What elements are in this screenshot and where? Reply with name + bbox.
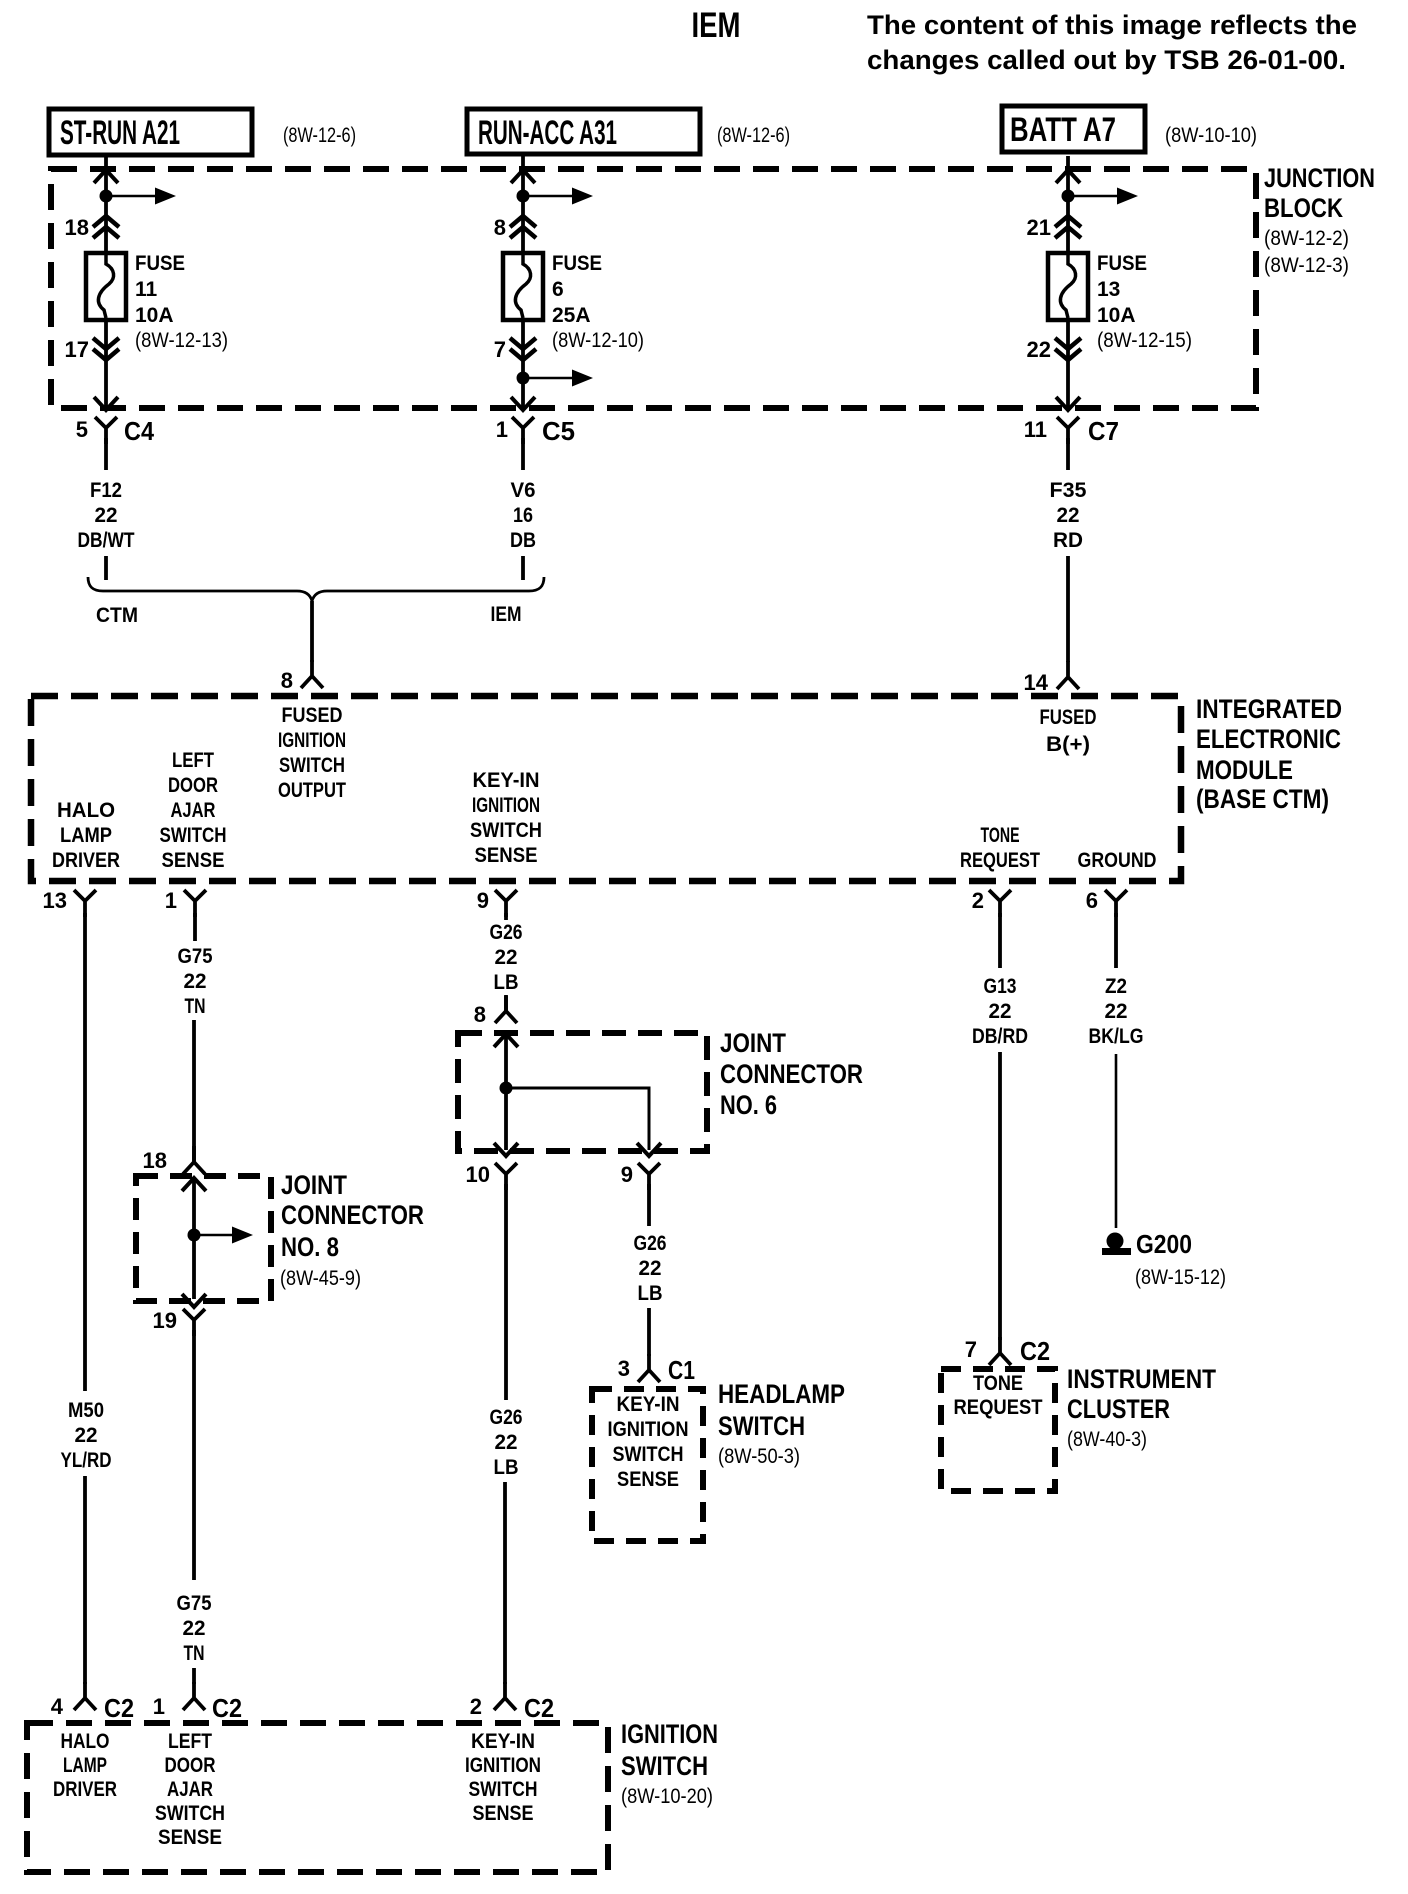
svg-text:8: 8 — [494, 215, 506, 240]
svg-text:13: 13 — [43, 888, 67, 913]
svg-text:22: 22 — [75, 1424, 98, 1447]
svg-text:22: 22 — [183, 1617, 206, 1640]
svg-text:G26: G26 — [490, 921, 523, 944]
svg-text:OUTPUT: OUTPUT — [278, 779, 346, 802]
svg-text:BK/LG: BK/LG — [1089, 1025, 1144, 1048]
svg-text:6: 6 — [552, 278, 564, 301]
svg-text:8: 8 — [281, 668, 293, 693]
svg-text:19: 19 — [153, 1308, 177, 1333]
svg-text:5: 5 — [76, 417, 88, 442]
svg-text:LAMP: LAMP — [63, 1754, 107, 1777]
svg-text:22: 22 — [95, 504, 118, 527]
svg-text:CLUSTER: CLUSTER — [1067, 1394, 1170, 1424]
svg-text:CONNECTOR: CONNECTOR — [281, 1200, 424, 1230]
svg-text:BATT A7: BATT A7 — [1010, 111, 1116, 149]
svg-text:22: 22 — [1027, 337, 1051, 362]
svg-text:4: 4 — [51, 1694, 64, 1719]
svg-text:(8W-10-20): (8W-10-20) — [621, 1785, 713, 1808]
svg-text:IGNITION: IGNITION — [472, 794, 540, 817]
svg-text:DOOR: DOOR — [168, 774, 218, 797]
svg-text:IEM: IEM — [692, 6, 741, 45]
svg-text:IGNITION: IGNITION — [465, 1754, 541, 1777]
svg-text:G26: G26 — [634, 1232, 667, 1255]
svg-text:REQUEST: REQUEST — [960, 849, 1040, 872]
svg-text:G26: G26 — [490, 1406, 523, 1429]
svg-text:GROUND: GROUND — [1078, 849, 1157, 872]
svg-text:SWITCH: SWITCH — [470, 819, 542, 842]
svg-text:DRIVER: DRIVER — [53, 1778, 117, 1801]
svg-text:1: 1 — [496, 417, 508, 442]
svg-text:B(+): B(+) — [1046, 733, 1090, 756]
svg-text:1: 1 — [153, 1694, 165, 1719]
svg-text:SENSE: SENSE — [473, 1802, 534, 1825]
svg-text:14: 14 — [1024, 670, 1049, 695]
svg-text:18: 18 — [143, 1148, 167, 1173]
svg-text:TONE: TONE — [973, 1372, 1023, 1395]
svg-text:(8W-50-3): (8W-50-3) — [718, 1445, 800, 1468]
svg-text:MODULE: MODULE — [1196, 755, 1293, 785]
svg-text:C1: C1 — [668, 1355, 695, 1385]
svg-text:13: 13 — [1097, 278, 1120, 301]
svg-text:2: 2 — [470, 1694, 482, 1719]
svg-text:F35: F35 — [1050, 479, 1087, 502]
svg-text:(8W-12-6): (8W-12-6) — [283, 124, 356, 147]
svg-text:YL/RD: YL/RD — [61, 1449, 112, 1472]
svg-text:(8W-40-3): (8W-40-3) — [1067, 1428, 1147, 1451]
svg-text:10: 10 — [466, 1162, 490, 1187]
svg-text:7: 7 — [965, 1337, 977, 1362]
svg-text:SENSE: SENSE — [475, 844, 538, 867]
svg-text:AJAR: AJAR — [167, 1778, 213, 1801]
svg-text:TONE: TONE — [981, 824, 1020, 847]
svg-text:(8W-15-12): (8W-15-12) — [1135, 1266, 1226, 1289]
svg-text:SWITCH: SWITCH — [613, 1443, 684, 1466]
svg-text:KEY-IN: KEY-IN — [471, 1730, 535, 1753]
svg-text:(8W-12-3): (8W-12-3) — [1264, 254, 1349, 277]
svg-text:(8W-45-9): (8W-45-9) — [280, 1267, 361, 1290]
svg-text:25A: 25A — [552, 304, 591, 327]
svg-text:JOINT: JOINT — [720, 1028, 786, 1058]
svg-text:22: 22 — [1105, 1000, 1128, 1023]
svg-text:BLOCK: BLOCK — [1264, 193, 1343, 223]
svg-text:F12: F12 — [90, 479, 122, 502]
svg-text:FUSED: FUSED — [282, 704, 343, 727]
svg-text:11: 11 — [1024, 417, 1047, 442]
svg-text:DB/RD: DB/RD — [972, 1025, 1028, 1048]
svg-text:DRIVER: DRIVER — [52, 849, 120, 872]
svg-text:KEY-IN: KEY-IN — [473, 769, 540, 792]
svg-text:SWITCH: SWITCH — [160, 824, 227, 847]
svg-text:AJAR: AJAR — [171, 799, 216, 822]
svg-text:10A: 10A — [135, 304, 174, 327]
svg-text:CONNECTOR: CONNECTOR — [720, 1059, 863, 1089]
svg-text:G75: G75 — [177, 1592, 212, 1615]
svg-text:KEY-IN: KEY-IN — [617, 1393, 680, 1416]
svg-text:SWITCH: SWITCH — [155, 1802, 225, 1825]
svg-text:FUSED: FUSED — [1040, 706, 1097, 729]
svg-text:(8W-12-10): (8W-12-10) — [552, 329, 644, 352]
svg-text:REQUEST: REQUEST — [954, 1396, 1043, 1419]
svg-text:IGNITION: IGNITION — [621, 1719, 718, 1749]
svg-text:22: 22 — [184, 970, 207, 993]
svg-text:FUSE: FUSE — [135, 252, 185, 275]
svg-text:JUNCTION: JUNCTION — [1264, 163, 1375, 193]
svg-text:22: 22 — [495, 1431, 518, 1454]
svg-text:2: 2 — [972, 888, 984, 913]
svg-text:JOINT: JOINT — [281, 1170, 347, 1200]
svg-text:ELECTRONIC: ELECTRONIC — [1196, 724, 1341, 754]
svg-text:(8W-12-13): (8W-12-13) — [135, 329, 228, 352]
svg-text:SWITCH: SWITCH — [621, 1751, 708, 1781]
svg-text:FUSE: FUSE — [552, 252, 602, 275]
svg-text:Z2: Z2 — [1105, 975, 1127, 998]
svg-text:SENSE: SENSE — [158, 1826, 222, 1849]
svg-text:LB: LB — [494, 971, 519, 994]
svg-text:HALO: HALO — [57, 799, 115, 822]
svg-text:C2: C2 — [212, 1693, 242, 1723]
svg-text:22: 22 — [639, 1257, 662, 1280]
svg-text:16: 16 — [513, 504, 533, 527]
svg-text:HEADLAMP: HEADLAMP — [718, 1379, 845, 1409]
svg-text:17: 17 — [65, 337, 89, 362]
svg-text:IGNITION: IGNITION — [608, 1418, 689, 1441]
svg-text:8: 8 — [474, 1002, 486, 1027]
svg-text:9: 9 — [621, 1162, 633, 1187]
svg-text:TN: TN — [184, 1642, 205, 1665]
svg-text:LB: LB — [638, 1282, 663, 1305]
svg-text:18: 18 — [65, 215, 89, 240]
svg-text:G75: G75 — [178, 945, 213, 968]
svg-text:LEFT: LEFT — [172, 749, 214, 772]
svg-text:DOOR: DOOR — [165, 1754, 216, 1777]
svg-text:FUSE: FUSE — [1097, 252, 1147, 275]
svg-text:11: 11 — [135, 278, 158, 301]
svg-text:10A: 10A — [1097, 304, 1136, 327]
svg-text:6: 6 — [1086, 888, 1098, 913]
svg-text:SWITCH: SWITCH — [469, 1778, 538, 1801]
svg-text:3: 3 — [618, 1356, 630, 1381]
svg-text:NO. 8: NO. 8 — [281, 1232, 339, 1262]
svg-text:22: 22 — [1057, 504, 1080, 527]
svg-text:ST-RUN A21: ST-RUN A21 — [60, 114, 180, 152]
svg-text:DB/WT: DB/WT — [78, 529, 135, 552]
svg-text:NO. 6: NO. 6 — [720, 1090, 777, 1120]
svg-text:22: 22 — [495, 946, 518, 969]
svg-text:9: 9 — [477, 888, 489, 913]
svg-text:G13: G13 — [984, 975, 1017, 998]
svg-text:C2: C2 — [524, 1693, 554, 1723]
svg-text:The content of this image refl: The content of this image reflects the — [867, 10, 1357, 40]
svg-text:CTM: CTM — [96, 604, 138, 627]
svg-text:LAMP: LAMP — [60, 824, 112, 847]
svg-text:7: 7 — [494, 337, 506, 362]
svg-text:LB: LB — [494, 1456, 519, 1479]
svg-text:SWITCH: SWITCH — [718, 1411, 805, 1441]
svg-text:SENSE: SENSE — [162, 849, 225, 872]
svg-text:V6: V6 — [511, 479, 536, 502]
svg-text:SENSE: SENSE — [617, 1468, 679, 1491]
svg-text:22: 22 — [989, 1000, 1012, 1023]
svg-text:LEFT: LEFT — [168, 1730, 212, 1753]
svg-text:C7: C7 — [1088, 416, 1119, 446]
svg-text:changes called out by TSB 26-0: changes called out by TSB 26-01-00. — [867, 45, 1346, 75]
svg-text:(BASE CTM): (BASE CTM) — [1196, 784, 1329, 814]
svg-text:IGNITION: IGNITION — [278, 729, 346, 752]
svg-text:G200: G200 — [1136, 1229, 1192, 1259]
svg-text:C5: C5 — [542, 416, 575, 446]
svg-text:(8W-12-2): (8W-12-2) — [1264, 227, 1349, 250]
svg-text:C2: C2 — [1020, 1336, 1050, 1366]
svg-text:RUN-ACC A31: RUN-ACC A31 — [478, 114, 617, 152]
svg-text:HALO: HALO — [61, 1730, 110, 1753]
svg-text:INSTRUMENT: INSTRUMENT — [1067, 1364, 1216, 1394]
svg-text:(8W-12-6): (8W-12-6) — [717, 124, 790, 147]
svg-text:RD: RD — [1053, 529, 1083, 552]
svg-text:(8W-12-15): (8W-12-15) — [1097, 329, 1192, 352]
svg-text:C4: C4 — [124, 416, 154, 446]
svg-text:SWITCH: SWITCH — [279, 754, 345, 777]
svg-text:IEM: IEM — [491, 603, 522, 626]
svg-text:INTEGRATED: INTEGRATED — [1196, 694, 1342, 724]
svg-text:21: 21 — [1027, 215, 1051, 240]
svg-text:1: 1 — [165, 888, 177, 913]
svg-text:(8W-10-10): (8W-10-10) — [1165, 124, 1257, 147]
svg-text:M50: M50 — [68, 1399, 104, 1422]
svg-text:DB: DB — [510, 529, 536, 552]
svg-text:C2: C2 — [104, 1693, 134, 1723]
svg-text:TN: TN — [185, 995, 206, 1018]
